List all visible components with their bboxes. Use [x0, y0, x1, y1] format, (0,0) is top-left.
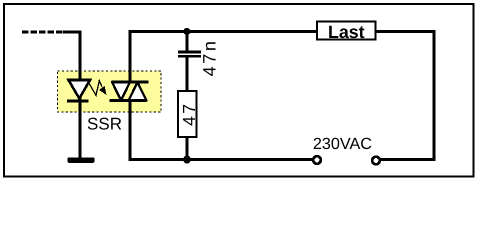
svg-text:47: 47 [179, 102, 199, 126]
svg-text:47n: 47n [200, 38, 220, 76]
svg-text:SSR: SSR [87, 114, 122, 133]
svg-text:Last: Last [328, 22, 365, 42]
svg-text:230VAC: 230VAC [313, 135, 372, 153]
